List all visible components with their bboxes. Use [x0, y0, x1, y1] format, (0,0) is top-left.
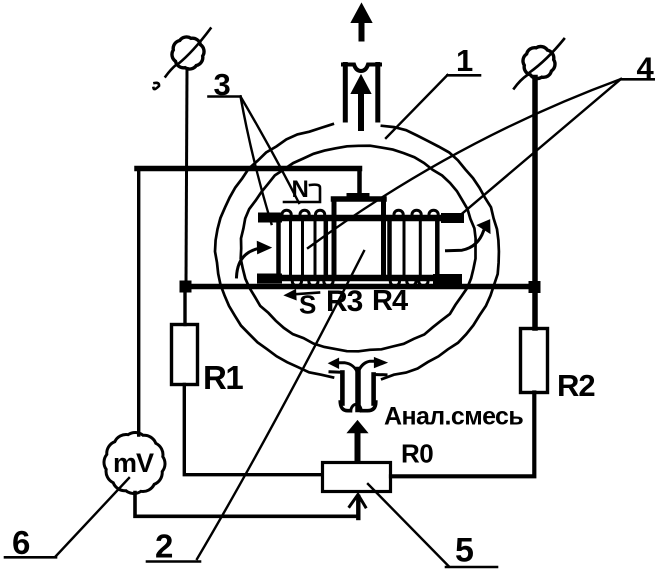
callout 1 underline [448, 74, 481, 77]
svg-text:6: 6 [12, 524, 30, 561]
callout 4 leader a (to R4) [458, 79, 622, 218]
inlet tube shoulders [330, 370, 343, 374]
annulus flow arrow right [447, 231, 484, 251]
top bus bar [262, 215, 460, 222]
bottom bus bar [261, 275, 458, 282]
wire: R2 bottom to R0 right rail [391, 393, 534, 477]
terminal right (crossed circle) [523, 47, 555, 79]
callout 2 leader [197, 251, 364, 559]
centre tube left wall [332, 199, 337, 276]
coil R3 right wall [324, 221, 329, 275]
centre tube right wall [381, 199, 386, 276]
svg-text:1: 1 [456, 43, 473, 78]
svg-text:2: 2 [155, 528, 173, 565]
callout 3 leader a [241, 97, 272, 225]
node: left bridge junction [180, 281, 192, 293]
terminal left (crossed circle) [172, 37, 204, 69]
svg-text:R2: R2 [557, 368, 595, 403]
wire: mV bottom to R0 wiper rail [135, 493, 358, 517]
callout 6 underline [5, 556, 56, 559]
svg-text:Анал.смесь: Анал.смесь [384, 403, 523, 431]
top bus end tabs [263, 213, 277, 223]
callout 6 leader [56, 478, 129, 556]
chamber outer wall (callout 1 target) [215, 124, 499, 379]
bottom bus end tabs [262, 274, 277, 284]
resistor R0 body (zero adjuster) [323, 463, 391, 492]
svg-text:S: S [299, 290, 316, 320]
coil R3 bottom loops [292, 282, 301, 286]
resistor R1 body [172, 325, 198, 385]
wire: right branch vertical (terminal to R0 rail) [532, 78, 538, 329]
callout 5 underline [446, 566, 497, 569]
centre tap tab [350, 193, 366, 200]
wire: junction to R1 top [183, 290, 186, 325]
svg-text:R1: R1 [203, 359, 243, 396]
wire: left column down to mV [137, 168, 140, 435]
coil R3 winding: left wall [276, 221, 281, 275]
flow split arrow right [359, 361, 375, 370]
callout 5 leader [368, 484, 449, 567]
resistor R2 body [521, 329, 548, 393]
top outlet tube [345, 65, 378, 121]
chamber inner wall [241, 146, 476, 352]
annulus flow arrow left [237, 248, 260, 277]
svg-text:R0: R0 [401, 439, 433, 469]
coil R4 top loops [394, 210, 403, 214]
svg-text:R4: R4 [372, 285, 408, 317]
R0 wiper arrow [356, 497, 360, 518]
svg-text:R3: R3 [326, 285, 363, 318]
callout 3 leader b [241, 97, 300, 204]
flow split arrow left [339, 363, 358, 372]
svg-text:3: 3 [214, 67, 231, 102]
coil R4 winding: left wall [387, 221, 392, 275]
callout 4 leader b (to R3) [308, 79, 621, 248]
wire: R1 bottom to R0 left [184, 385, 322, 475]
coil R4 strands [403, 221, 406, 275]
svg-text:4: 4 [637, 51, 655, 86]
wire: left terminal lead down to junction [186, 69, 187, 285]
inlet gas column [355, 370, 361, 410]
coil R4 bottom loops [390, 282, 399, 286]
outlet flow arrow (inside tube) [358, 84, 364, 128]
callout 3 underline [209, 95, 241, 98]
outlet flow arrow (outside) [359, 12, 365, 39]
wire: centre tap drop [357, 169, 362, 197]
inlet flow arrow (below tube) [355, 430, 361, 460]
label N underline with hook [284, 185, 320, 202]
coil R3 strands [289, 221, 292, 275]
mV millivoltmeter body [104, 432, 165, 493]
svg-text:N: N [292, 176, 309, 203]
speck near left terminal [154, 83, 160, 89]
wire: bridge bottom rail (junction to junction) [185, 284, 538, 290]
coil R4 right wall [435, 221, 440, 275]
node: right bridge junction [529, 281, 541, 293]
bottom inlet tube [342, 373, 373, 404]
callout 4 underline [621, 78, 655, 81]
svg-text:5: 5 [455, 532, 474, 570]
centre tube cap [334, 196, 385, 202]
callout 1 leader [386, 75, 448, 138]
label S pole arrow [291, 293, 319, 295]
callout 2 underline [147, 560, 200, 563]
coil R3 top loops [282, 210, 291, 214]
svg-text:mV: mV [113, 448, 154, 478]
wire: top bridge feed from left column to centre tap [137, 166, 360, 172]
